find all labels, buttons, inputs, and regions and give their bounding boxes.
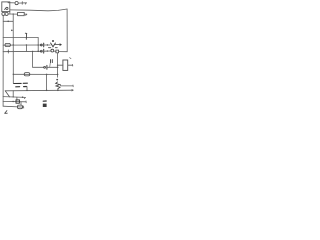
terminal circle C1 on top lead [15,1,18,4]
vertical tie wire C to oval O3 [20,102,22,105]
vertical tie V1 [25,45,27,51]
junction dot stage2 upper [57,67,59,69]
coupling oval O3 on wire B [17,105,22,109]
wire W0: jack to component box 2 [8,13,17,15]
figure label FIG dash [43,100,46,102]
wire C (middle return) [3,100,26,102]
junction tick W2 left [8,51,9,52]
junction dot bus/battery [26,90,27,91]
output stub terminal tick [72,64,74,66]
battery B top long plate [14,82,28,84]
capacitor C1 circle electrode on W1 [40,44,42,46]
capacitor C1 plate on W1 [43,43,45,47]
wire: battery to bus [26,87,28,91]
wire: right vertical drop (collector supply) [66,9,68,52]
left rail (vertical bus) [2,15,4,106]
wire stage2 upper branch [33,66,45,68]
wire A end hook [24,97,25,98]
battery B bottom short plate [16,86,27,88]
ground bus y90.3 [5,89,73,92]
wire: bottom of right vertical to transistor [59,51,67,53]
transistor T1 point-contact whisker V [51,43,56,47]
wire: T1 to emitter rail [54,50,56,52]
coupling oval O2 on lower branch [24,73,30,76]
label numeral 4 with leader [25,33,27,39]
junction dot V3/W2 [37,51,39,53]
wire W2 lower branch [3,50,42,52]
vertical tie x13 bus to wireA [12,91,14,97]
junction dot lower branch / emitter vertical [57,74,59,76]
transistor T1 base bar dashes [48,47,57,49]
rail R2 horizontal [3,37,38,39]
junction dot x13/lower branch [13,74,14,75]
wire: C1 to leader end [18,2,26,4]
vertical V4 to ground bus [46,74,48,90]
junction dot W0/x13 [13,13,14,14]
capacitor C2 circle electrode on W2 [40,50,42,52]
wire W1 upper branch [3,44,42,46]
component box 3 on wire C [16,100,19,103]
vertical V2 stage2 [32,51,34,67]
label 14 tick [70,58,71,59]
wire: box 2 to leader end [24,13,27,15]
figure label block [43,104,47,107]
label numeral 3 [11,30,13,32]
switch blade [5,91,9,97]
wire: box output stub [68,64,73,66]
vertical V3 from R2 [37,38,39,52]
wire B (bottom return) [3,105,24,108]
junction dot wire C / x13 [12,101,13,102]
junction dot V2/W2 [32,51,33,52]
component box 2 on W0 [18,12,25,15]
label 12 leader [49,63,51,66]
wire C end tick [25,101,27,103]
microphone inner diaphragm stroke [4,8,6,10]
wire: C3 to emitter vertical [47,66,57,68]
transistor T1 top blob [52,40,54,42]
wire stage2 lower branch [13,73,57,75]
junction dot bus/resistor [57,90,59,92]
wire: long rail L1 from box to right corner [10,9,67,11]
wire B end tick [23,106,25,108]
junction dot box input [57,65,58,66]
leader arrowhead (top lead end) [25,3,26,4]
wire: C2 to transistor emitter circle [44,50,51,52]
microphone box 1 (top-left device) [2,2,10,12]
junction dot on y21 branch [7,21,9,23]
wire: box top to circle C1 [8,2,15,4]
wire: emitter vertical to box [58,64,63,66]
bus end arrowhead [72,90,73,92]
capacitor C2 plate on W2 [43,49,45,53]
junction dot V1/W1 [26,44,27,45]
tick mark on top lead [21,2,23,5]
microphone inner contact circle [6,7,8,9]
label numeral 2 (bottom left) [5,111,8,114]
junction dot W1/x13 [13,44,14,45]
wire: C1 to transistor [44,44,50,46]
wire: branch at y21 [3,20,13,22]
junction dot after C1 [47,44,48,45]
output device box 13 [63,60,68,70]
junction dot W1/V3 [37,44,39,46]
jack circle B [5,12,8,15]
label numeral 12 [51,60,53,63]
leader arrowhead (W0 end) [26,14,27,15]
wire: box right edge down to W0 [9,12,11,14]
wire: tap to right terminal y86 [61,85,73,86]
terminal tick y86 [72,85,74,87]
emitter vertical x57.5 [56,53,58,77]
coupling oval O1 on W1 [5,43,10,46]
junction dot wireA/x13 [13,96,14,97]
junction dot lower branch / V4 [46,74,48,76]
wire A (lower bus) [3,96,25,99]
capacitor C3 circle electrode [44,66,46,68]
junction dot wireA right [22,96,24,98]
label 16 blob [56,79,58,81]
capacitor C3 plate [46,65,48,69]
vertical riser x13 [12,14,14,83]
stub: wire A to component box 3 [16,97,18,100]
emitter series box on W2 [56,50,59,53]
transistor T1 body circle [51,49,54,52]
resistor R (zigzag) to bus [56,82,60,90]
jack circle A [2,12,5,15]
reference arrow to vertical wire [55,44,61,46]
junction dot bus/V4 [46,90,48,92]
junction dot after C2 [47,50,48,51]
